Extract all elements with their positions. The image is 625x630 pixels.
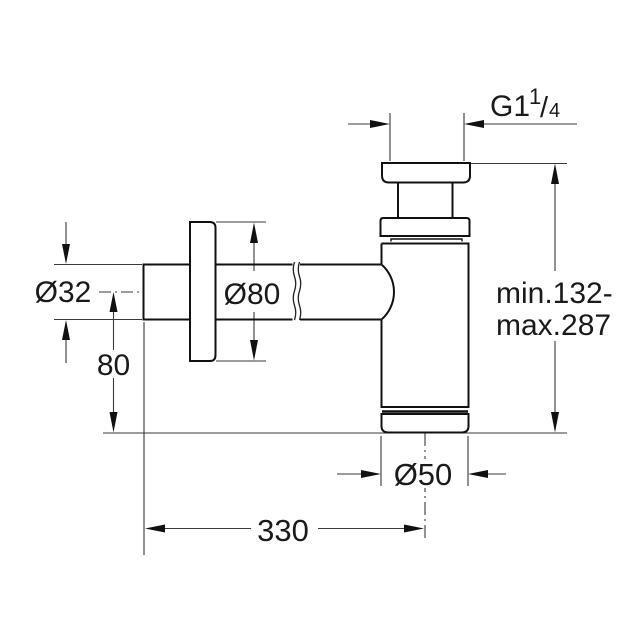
node G14-dim-right xyxy=(482,123,577,125)
collar (body top nut) xyxy=(381,218,470,236)
node body-centerline xyxy=(424,433,426,538)
node G14-dim-left xyxy=(348,123,372,125)
node dia50-ext xyxy=(381,436,468,486)
node G14-ext-left xyxy=(389,113,391,161)
node body-bottom-ring xyxy=(382,410,468,413)
node body-bottom-cap xyxy=(382,414,469,433)
node minmax-dim-line xyxy=(554,182,556,414)
wall flange (escutcheon over pipe) xyxy=(190,222,216,361)
node dia80-ext xyxy=(216,222,266,361)
svg-text:max.287: max.287 xyxy=(496,309,611,342)
node dim80-line xyxy=(113,311,115,414)
node arrowheads xyxy=(62,120,559,533)
svg-text:Ø80: Ø80 xyxy=(224,278,281,311)
node pipe-break-squiggle xyxy=(293,262,301,320)
body (trap cup) xyxy=(382,244,469,408)
wire xyxy=(54,113,577,555)
node label-dia50 xyxy=(391,459,454,488)
node dia80-dim-line xyxy=(253,243,255,342)
neck xyxy=(398,182,453,218)
node label-minmax xyxy=(496,277,613,342)
node collar-inner-rim xyxy=(391,239,462,242)
node body-inlet-bulge xyxy=(382,265,395,320)
node dia50-dim xyxy=(337,473,506,475)
node G14-ext-right xyxy=(463,113,465,161)
node dia32-arrow-lines xyxy=(65,222,67,363)
node ext-330-left xyxy=(143,322,145,555)
svg-text:min.132-: min.132- xyxy=(496,277,613,310)
top flange nut xyxy=(382,163,470,183)
node pipe-centerline xyxy=(99,291,143,293)
node label-G114 xyxy=(490,84,560,124)
node dia32-ext xyxy=(54,265,142,320)
svg-text:80: 80 xyxy=(97,349,130,382)
node bottom-ref-line xyxy=(103,432,567,434)
svg-text:/: / xyxy=(540,92,549,124)
svg-text:330: 330 xyxy=(257,513,309,548)
node dim330-line xyxy=(163,528,405,530)
svg-text:Ø50: Ø50 xyxy=(394,457,453,492)
svg-text:G1: G1 xyxy=(490,90,530,123)
svg-text:4: 4 xyxy=(549,100,560,122)
pipe (horizontal inlet tube) xyxy=(143,264,382,321)
svg-text:Ø32: Ø32 xyxy=(35,276,92,309)
node top-ref-line xyxy=(471,163,567,165)
